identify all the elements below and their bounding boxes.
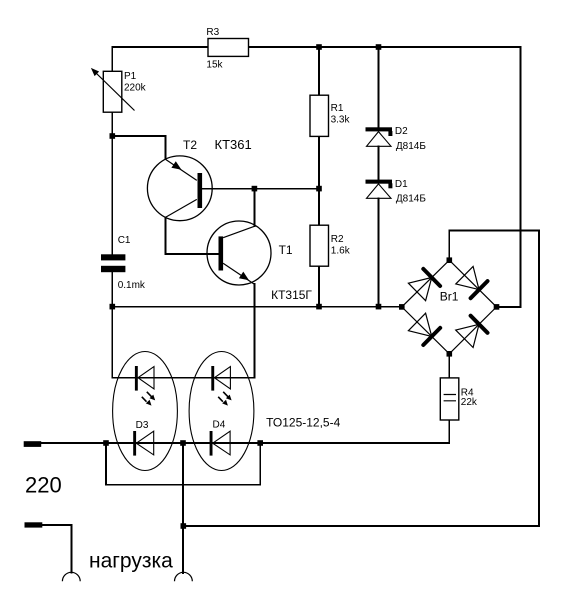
svg-text:15k: 15k xyxy=(206,59,223,70)
svg-text:КТ315Г: КТ315Г xyxy=(271,288,312,302)
svg-text:0.1mk: 0.1mk xyxy=(118,280,146,291)
svg-text:220k: 220k xyxy=(124,82,147,93)
svg-text:3.3k: 3.3k xyxy=(331,115,351,126)
svg-text:Br1: Br1 xyxy=(440,289,459,303)
svg-text:D3: D3 xyxy=(136,420,149,431)
svg-text:R1: R1 xyxy=(331,103,344,114)
svg-text:R2: R2 xyxy=(331,234,344,245)
svg-text:КТ361: КТ361 xyxy=(215,137,252,152)
svg-text:ТО125-12,5-4: ТО125-12,5-4 xyxy=(266,415,340,429)
svg-text:D2: D2 xyxy=(395,126,408,137)
svg-text:нагрузка: нагрузка xyxy=(89,550,173,573)
svg-text:Д814Б: Д814Б xyxy=(396,141,426,152)
svg-text:R3: R3 xyxy=(206,27,219,38)
svg-text:D1: D1 xyxy=(395,179,408,190)
svg-text:220: 220 xyxy=(25,472,62,497)
svg-text:T1: T1 xyxy=(279,243,293,257)
svg-text:1.6k: 1.6k xyxy=(331,246,351,257)
svg-text:C1: C1 xyxy=(118,235,131,246)
svg-text:Д814Б: Д814Б xyxy=(396,194,426,205)
svg-text:P1: P1 xyxy=(124,71,137,82)
svg-text:D4: D4 xyxy=(213,419,226,430)
svg-text:T2: T2 xyxy=(183,138,197,152)
svg-text:22k: 22k xyxy=(461,397,478,408)
